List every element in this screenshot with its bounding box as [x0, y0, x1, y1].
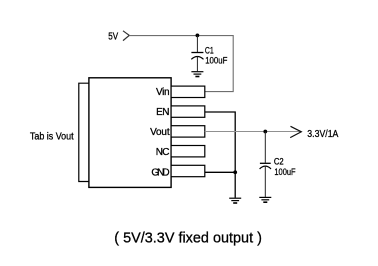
svg-text:NC: NC: [156, 147, 170, 158]
svg-text:100uF: 100uF: [205, 55, 227, 66]
svg-text:3.3V/1A: 3.3V/1A: [307, 128, 338, 140]
svg-text:Tab is Vout: Tab is Vout: [30, 131, 74, 142]
svg-text:5V: 5V: [108, 32, 118, 43]
svg-text:GND: GND: [151, 167, 169, 178]
svg-text:100uF: 100uF: [274, 167, 295, 178]
svg-text:Vin: Vin: [156, 87, 170, 98]
svg-text:Vout: Vout: [150, 127, 170, 138]
svg-text:EN: EN: [156, 107, 169, 118]
svg-text:( 5V/3.3V fixed output ): ( 5V/3.3V fixed output ): [114, 230, 262, 246]
